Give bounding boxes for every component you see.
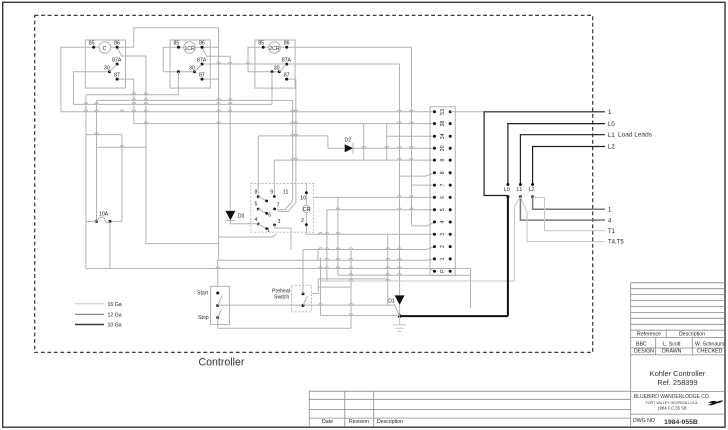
relay C pin 85: [92, 46, 95, 49]
wire 1CR junction drop: [177, 72, 179, 95]
svg-text:86: 86: [114, 41, 120, 47]
connector J1 dashed box: [251, 183, 314, 232]
switch S2 terminals: [302, 292, 305, 295]
wire load lead L0: [508, 124, 605, 185]
wire x363.7 link: [363, 124, 365, 161]
wire load lead 1 thin link from terminal 53: [450, 111, 484, 113]
svg-text:11: 11: [283, 190, 288, 196]
svg-text:87A: 87A: [112, 57, 122, 63]
svg-text:T4,T5: T4,T5: [608, 240, 624, 246]
svg-text:6: 6: [440, 196, 446, 199]
wire load lead L1: [520, 135, 605, 185]
wire bus y135.9 segment: [258, 135, 328, 137]
wire bus y123.6 to terminal 38: [134, 123, 435, 125]
wire generator lead T4,T5: [520, 197, 605, 242]
svg-text:1CR: 1CR: [184, 46, 195, 52]
controller dashed boundary box: [35, 15, 593, 352]
svg-text:L2: L2: [608, 145, 615, 151]
svg-text:5: 5: [440, 208, 446, 211]
wire C86 diagonal feed: [117, 47, 146, 243]
terminal row 5: [433, 208, 436, 211]
terminal row 53: [433, 110, 436, 113]
svg-text:L1: L1: [517, 187, 523, 193]
svg-text:87A: 87A: [282, 57, 292, 63]
connector pin 7: [273, 208, 276, 211]
wire bus y100.7: [97, 99, 293, 101]
wire 1CR coil-30 link: [163, 71, 194, 73]
relay 2CR pin 87: [285, 78, 288, 81]
relay 2CR coil: [269, 42, 281, 54]
svg-text:DWG NO: DWG NO: [633, 418, 655, 424]
wire generator lead 4: [520, 197, 605, 220]
wire row2 drop link: [317, 250, 319, 261]
svg-text:D3: D3: [238, 213, 245, 219]
node L2 lower: [531, 195, 534, 198]
relay 1CR pin 87A: [201, 63, 204, 66]
wire C86 to bus A riser: [133, 28, 135, 48]
node 1CR30 junction: [177, 70, 180, 73]
node 2CR30 junction: [271, 70, 274, 73]
connector pin 3: [273, 224, 276, 227]
svg-text:2: 2: [301, 218, 304, 224]
wire row7 feed: [412, 184, 435, 186]
wire thick ground lead: [400, 197, 508, 316]
connector pin 4: [257, 223, 260, 226]
wire row5 left drop: [326, 210, 328, 281]
relay 1CR pin 87: [201, 78, 204, 81]
wire L1 return drop: [515, 197, 521, 281]
svg-text:Description: Description: [679, 332, 705, 338]
wire top bus A: [134, 27, 219, 29]
connector pin 8: [257, 195, 260, 198]
terminal row P: [433, 270, 436, 273]
svg-text:Stop: Stop: [198, 315, 209, 321]
connector pin 9: [273, 195, 276, 198]
terminal row 7: [433, 184, 436, 187]
wire load lead L2: [533, 147, 605, 185]
diode D1: [395, 295, 405, 305]
switch S1 stop arm: [218, 309, 222, 318]
svg-text:BBC: BBC: [636, 341, 647, 347]
title block outline: [631, 283, 725, 427]
svg-text:7: 7: [277, 202, 280, 208]
relay C pin 87A: [116, 63, 119, 66]
wire x386.7 link: [386, 124, 388, 161]
svg-text:85: 85: [258, 41, 264, 47]
svg-text:30: 30: [189, 65, 195, 71]
wire row9 feed y160.1: [274, 159, 434, 161]
wire fuse left link: [86, 220, 97, 222]
wire CR top lead: [305, 183, 307, 205]
wire start common run: [218, 304, 395, 306]
wire x351 drop: [350, 250, 352, 329]
wire bus135.9 left drop to pin8: [257, 136, 259, 197]
wire bus A right drop: [218, 28, 220, 261]
svg-text:L0: L0: [504, 187, 510, 193]
wire x337.9 drop: [337, 197, 339, 275]
terminal row 1: [433, 257, 436, 260]
wire L1 return bus: [321, 280, 515, 282]
svg-text:10A: 10A: [99, 211, 109, 217]
wire bus y104.4: [73, 103, 272, 105]
wire y94.7 link: [86, 94, 178, 96]
connector pin4 arm: [258, 224, 266, 229]
wire D1 top feed: [399, 281, 401, 295]
svg-text:L2: L2: [529, 187, 535, 193]
wire D2 cathode to terminal 20: [353, 147, 435, 149]
wire C86 right stub: [117, 46, 134, 48]
svg-text:FORT VALLEY GEORGIA U.S.A.: FORT VALLEY GEORGIA U.S.A.: [646, 401, 699, 405]
terminal row 6: [433, 196, 436, 199]
wire generator lead T1: [533, 197, 605, 231]
node L0 upper: [506, 183, 509, 186]
wire row3 feed: [306, 233, 434, 235]
wire fuse right link: [110, 220, 122, 222]
revision strip box: [309, 391, 630, 427]
svg-text:DESIGN: DESIGN: [634, 349, 654, 355]
relay 1CR box: [170, 40, 210, 88]
relay C pin 30: [108, 70, 111, 73]
title block role row: [631, 354, 725, 356]
bird logo: [708, 400, 724, 405]
node L1 lower: [519, 195, 522, 198]
svg-text:2: 2: [440, 245, 446, 248]
relay C switch arm: [109, 65, 116, 72]
svg-text:53: 53: [440, 109, 446, 115]
svg-text:8: 8: [255, 190, 258, 196]
svg-text:87: 87: [199, 72, 205, 78]
wire D3 bottom to pin4 arm: [230, 221, 258, 224]
wire C85 left drop: [61, 47, 94, 112]
terminal row 34: [433, 135, 436, 138]
relay C pin 86: [116, 46, 119, 49]
svg-text:87: 87: [284, 72, 290, 78]
wire C30 left drop: [73, 72, 109, 105]
svg-text:D1: D1: [388, 299, 395, 305]
svg-text:38: 38: [440, 121, 446, 127]
svg-text:10 Ga: 10 Ga: [108, 323, 122, 329]
switch S1 terminals: [216, 292, 219, 295]
wire D2 anode lead: [328, 147, 345, 149]
wire 2CR87 drop to connector: [287, 78, 296, 80]
terminal row 3: [433, 233, 436, 236]
svg-text:Kohler Controller: Kohler Controller: [650, 369, 706, 378]
wire 2CR junction drop: [271, 72, 273, 105]
svg-text:L. Scott: L. Scott: [663, 341, 681, 347]
terminal strip TB1 box: [430, 107, 455, 276]
switch S1 arm: [218, 296, 223, 306]
wire 1CR86 right stub: [202, 46, 219, 48]
diode D3: [229, 124, 231, 211]
svg-text:10: 10: [300, 195, 306, 201]
wire 1CR86 diagonal feed: [202, 47, 230, 123]
svg-text:D2: D2: [345, 138, 352, 144]
wire D1 cathode: [399, 305, 401, 316]
svg-text:4: 4: [255, 217, 258, 223]
wire y287.1 link: [318, 286, 351, 288]
svg-text:34: 34: [440, 133, 446, 139]
switch S2 preheat dashed box: [291, 285, 311, 312]
title block header row: [631, 330, 725, 337]
legend 12 Ga sample: [75, 313, 104, 315]
wire bottom bus y328.3: [218, 327, 351, 329]
wire row2 to preheat drop: [302, 250, 304, 294]
svg-text:CR: CR: [303, 207, 311, 213]
svg-text:85: 85: [174, 41, 180, 47]
wire preheat right run: [311, 293, 318, 295]
relay C coil U-C: [99, 42, 111, 54]
wire x387.7 drop: [387, 234, 389, 305]
relay C box: [85, 40, 125, 88]
wire ground bus right drop: [470, 269, 472, 309]
svg-text:20: 20: [440, 145, 446, 151]
svg-text:Ref. 258399: Ref. 258399: [657, 378, 697, 387]
relay 2CR pin 87A: [285, 63, 288, 66]
svg-text:Revision: Revision: [349, 419, 369, 425]
svg-text:DRAWN: DRAWN: [662, 349, 682, 355]
svg-text:6: 6: [268, 213, 271, 219]
terminal row 4: [433, 221, 436, 224]
svg-text:W. Schnaurs: W. Schnaurs: [695, 341, 725, 347]
wire row4 feed: [412, 222, 435, 226]
switch S2 arm: [303, 296, 307, 306]
wire row5 feed: [327, 209, 435, 211]
svg-text:C: C: [103, 46, 107, 52]
wire row1 feed: [219, 259, 435, 260]
svg-text:16 Ga: 16 Ga: [108, 302, 122, 308]
relay C pin 87: [116, 78, 119, 81]
legend 10 Ga sample: [75, 324, 104, 326]
relay 1CR switch arm: [195, 65, 202, 72]
svg-text:L0: L0: [608, 122, 615, 128]
wire 1CR85 left drop: [163, 47, 178, 72]
svg-text:1: 1: [267, 228, 270, 234]
wire y315.5 link: [321, 315, 400, 317]
svg-text:Start: Start: [197, 291, 209, 297]
svg-text:9: 9: [270, 189, 273, 195]
diode D2: [345, 144, 353, 152]
terminal row 8: [433, 171, 436, 174]
wire 87A chain run: [202, 63, 400, 65]
title block names row: [631, 338, 725, 355]
relay CR coil: [303, 205, 310, 212]
connector pin 5: [257, 208, 260, 211]
wire CR bottom lead: [305, 213, 307, 235]
terminal row 2: [433, 245, 436, 248]
wire left long drop x86: [85, 95, 87, 269]
svg-text:Date: Date: [322, 419, 333, 425]
svg-text:3: 3: [278, 219, 281, 225]
svg-text:Controller: Controller: [199, 356, 245, 368]
svg-text:87A: 87A: [197, 57, 207, 63]
wire y243.6 link: [146, 243, 219, 245]
relay 1CR pin 86: [201, 46, 204, 49]
wire row1 to start drop: [217, 260, 219, 286]
wire 2CR86 right run: [287, 47, 412, 226]
svg-text:4: 4: [440, 220, 446, 223]
svg-text:7: 7: [440, 184, 446, 187]
wire row8 feed with jog: [400, 64, 435, 281]
wire fuse right down: [109, 221, 111, 268]
relay 2CR box: [255, 40, 295, 88]
wire stop drop: [217, 318, 219, 329]
switch S1 start-stop box: [211, 286, 230, 324]
wire row2 feed: [303, 247, 435, 250]
title block empty revision rows: [631, 289, 725, 325]
wire pin3 exit: [275, 225, 291, 250]
svg-text:1984-055B: 1984-055B: [664, 419, 698, 426]
connector pin8 arm: [258, 197, 266, 201]
wire row6 feed: [314, 196, 435, 198]
wire y278.9 link: [318, 278, 387, 280]
node L0 lower: [506, 195, 509, 198]
wire x318.3 link: [317, 279, 319, 294]
wire bus y111.8 to terminal 53: [61, 111, 435, 113]
fuse F1 10A: [95, 220, 98, 223]
svg-text:86: 86: [199, 41, 205, 47]
svg-text:2CR: 2CR: [269, 46, 280, 52]
relay 1CR pin 85: [177, 46, 180, 49]
svg-text:30: 30: [274, 65, 280, 71]
svg-text:Reference: Reference: [637, 332, 661, 338]
relay 2CR switch arm: [279, 65, 286, 72]
terminal row 38: [433, 122, 436, 125]
wire ground bus y268.5: [86, 269, 471, 272]
connector pin 10 riser pair: [277, 79, 296, 211]
ground symbol: [393, 316, 406, 331]
terminal row 20: [433, 147, 436, 150]
relay 2CR pin 86: [285, 46, 288, 49]
wire load lead 1: [484, 112, 605, 196]
svg-text:85: 85: [89, 41, 95, 47]
svg-text:1: 1: [440, 257, 446, 260]
node D1 ground junction: [398, 314, 402, 318]
svg-text:T1: T1: [608, 229, 616, 235]
relay 1CR coil: [184, 42, 196, 54]
wire start common diagonal to ground junction: [395, 305, 400, 315]
wire pin9 riser: [273, 160, 275, 196]
svg-text:5: 5: [255, 202, 258, 208]
svg-text:P: P: [440, 269, 446, 273]
wire 1CR87 drop: [202, 78, 219, 80]
svg-text:Switch: Switch: [274, 295, 289, 301]
svg-text:3: 3: [440, 233, 446, 236]
wire 2CR coil-30 link: [248, 71, 279, 73]
connector pin5 arm: [258, 209, 266, 213]
node L1 upper: [519, 183, 522, 186]
svg-text:12 Ga: 12 Ga: [108, 313, 122, 319]
wire fuse right riser x122: [121, 135, 123, 222]
wire x320.5 drop: [320, 257, 322, 315]
wire y147.3 link: [97, 146, 146, 148]
svg-text:30: 30: [104, 65, 110, 71]
wire left link y134.6: [86, 134, 122, 136]
wire y275.2 link: [338, 274, 471, 276]
svg-text:BLUEBIRD WANDERLODGE CO.: BLUEBIRD WANDERLODGE CO.: [634, 394, 710, 400]
svg-text:Description: Description: [377, 419, 403, 425]
wire generator lead 1: [533, 197, 605, 210]
svg-text:1984 F.C.35 SB: 1984 F.C.35 SB: [657, 406, 687, 411]
svg-text:9: 9: [440, 159, 446, 162]
svg-text:Load Leads: Load Leads: [618, 132, 653, 139]
svg-text:CHECKED: CHECKED: [697, 349, 723, 355]
node L2 upper: [531, 183, 534, 186]
wire D2 jog: [327, 136, 329, 148]
svg-text:L1: L1: [608, 133, 615, 139]
wire 2CR85 left drop: [248, 47, 263, 72]
wire y237 link: [219, 234, 277, 237]
legend 16 Ga sample: [75, 303, 104, 305]
svg-text:86: 86: [284, 41, 290, 47]
relay 2CR pin 85: [262, 46, 265, 49]
svg-text:87: 87: [114, 72, 120, 78]
wire fuse left riser: [96, 100, 98, 221]
svg-text:8: 8: [440, 171, 446, 174]
wire C87 drop: [117, 79, 134, 124]
wire preheat top link: [302, 285, 304, 294]
relay 1CR pin 30: [193, 70, 196, 73]
terminal row 9: [433, 159, 436, 162]
relay 2CR pin 30: [278, 70, 281, 73]
wire row34 feed: [387, 135, 435, 137]
wire crossing hops: [84, 62, 413, 315]
